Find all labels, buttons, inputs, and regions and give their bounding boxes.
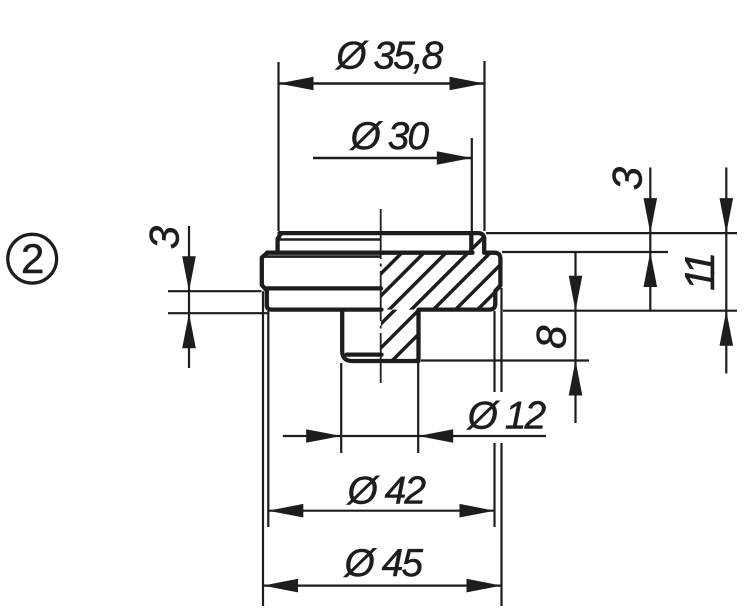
svg-text:Ø 45: Ø 45 <box>343 542 424 585</box>
svg-text:Ø 30: Ø 30 <box>349 115 430 158</box>
svg-text:3: 3 <box>141 226 188 249</box>
svg-text:3: 3 <box>604 167 651 190</box>
svg-text:2: 2 <box>21 235 43 282</box>
svg-text:8: 8 <box>527 325 574 349</box>
svg-text:Ø 42: Ø 42 <box>346 469 427 512</box>
svg-text:Ø 12: Ø 12 <box>466 394 547 437</box>
svg-text:Ø 35,8: Ø 35,8 <box>334 35 443 78</box>
svg-text:11: 11 <box>676 255 723 291</box>
